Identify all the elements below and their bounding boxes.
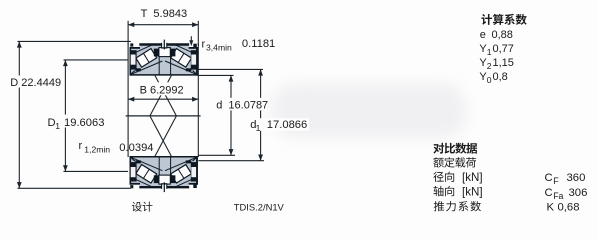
svg-text:C: C	[545, 187, 553, 199]
svg-text:[kN]: [kN]	[462, 185, 483, 198]
svg-text:1: 1	[55, 121, 60, 131]
svg-text:1,15: 1,15	[493, 57, 514, 69]
svg-text:TDIS.2/N1V: TDIS.2/N1V	[234, 202, 285, 213]
svg-text:0,8: 0,8	[493, 71, 508, 83]
svg-text:0: 0	[487, 75, 492, 85]
svg-text:C: C	[545, 172, 553, 184]
svg-text:17.0866: 17.0866	[267, 119, 307, 131]
svg-text:0,68: 0,68	[558, 201, 580, 213]
svg-text:Fa: Fa	[553, 191, 563, 201]
svg-text:B 6.2992: B 6.2992	[140, 85, 184, 97]
svg-text:0,88: 0,88	[492, 29, 513, 41]
svg-text:360: 360	[567, 172, 586, 184]
svg-text:1,2min: 1,2min	[84, 145, 110, 155]
svg-text:r: r	[79, 140, 83, 152]
svg-text:0.0394: 0.0394	[119, 142, 153, 154]
svg-text:2: 2	[487, 61, 492, 71]
svg-text:[kN]: [kN]	[462, 171, 483, 184]
svg-text:K: K	[547, 201, 555, 213]
svg-text:3,4min: 3,4min	[206, 42, 232, 52]
svg-text:19.6063: 19.6063	[64, 117, 104, 129]
svg-text:0,77: 0,77	[493, 43, 514, 55]
svg-text:1: 1	[256, 123, 261, 133]
svg-text:0.1181: 0.1181	[242, 38, 275, 50]
svg-text:D 22.4449: D 22.4449	[10, 77, 61, 89]
svg-text:1: 1	[487, 47, 492, 57]
svg-text:306: 306	[569, 187, 588, 199]
svg-text:d 16.0787: d 16.0787	[216, 100, 268, 112]
svg-text:F: F	[553, 176, 559, 186]
svg-text:r: r	[202, 38, 206, 50]
svg-text:e: e	[480, 29, 486, 41]
svg-text:T 5.9843: T 5.9843	[141, 8, 187, 20]
